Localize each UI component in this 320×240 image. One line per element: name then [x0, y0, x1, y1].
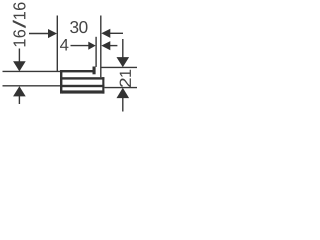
profile left edge: [60, 70, 62, 94]
profile top flange: [62, 70, 93, 72]
dimension 30 right arrowhead: [101, 29, 110, 38]
profile third band: [62, 85, 104, 87]
dimension label 16/16 (rotated): [13, 2, 26, 46]
dimension 16/16 line: [18, 49, 20, 64]
dimension 16/16 up arrowhead: [13, 86, 26, 96]
dimension 4 left arrowhead: [88, 42, 95, 50]
profile hook tab: [93, 67, 96, 75]
profile right edge: [102, 77, 104, 93]
extension line right wall: [100, 16, 102, 78]
dimension 21 lower tail: [122, 98, 124, 112]
dimension 4 left arrow tail: [71, 45, 90, 47]
profile bottom band: [62, 90, 104, 93]
extension line top-left: [3, 70, 63, 72]
extension line bottom-left: [3, 85, 63, 87]
dimension 21 up arrowhead: [117, 88, 130, 98]
dimension label 30: [70, 21, 87, 33]
dimension label 4: [60, 39, 68, 51]
dimension 30 left arrowhead: [48, 29, 57, 38]
extension line top-right of dimension 21: [101, 66, 137, 68]
dimension label 21 (rotated): [120, 70, 131, 87]
extension line of dimension 4: [95, 37, 97, 67]
dimension 30 left arrow tail: [29, 33, 49, 35]
dimension 21 upper tail: [122, 39, 124, 59]
dimension 21 down arrowhead: [117, 57, 130, 67]
extension line left of dimension 30: [56, 16, 58, 72]
dimension 16/16 down arrowhead: [13, 61, 26, 71]
dimension 4 right arrowhead: [101, 41, 110, 50]
dimension 16/16 lower tail: [18, 96, 20, 104]
dimension 30 right arrow tail: [110, 32, 123, 34]
profile second band: [62, 77, 104, 79]
dimension 4 right arrow tail: [110, 45, 117, 47]
extension line bottom-right of dimension 21: [105, 87, 138, 89]
